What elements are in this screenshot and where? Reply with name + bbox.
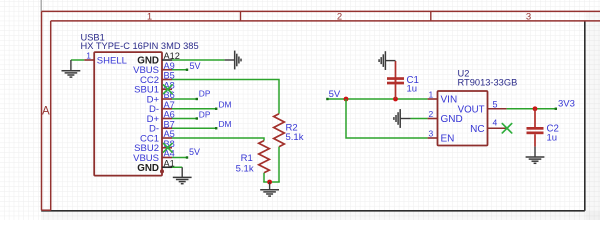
pin A6 (D+) of USB1	[162, 118, 172, 120]
svg-text:DP: DP	[199, 109, 211, 119]
pin A7 (D-) of USB1	[162, 108, 172, 110]
ground at A1	[181, 167, 183, 177]
svg-text:1: 1	[147, 11, 152, 22]
resistor R2	[274, 114, 285, 147]
ground at SHELL	[70, 60, 72, 70]
svg-text:5V: 5V	[190, 61, 201, 71]
svg-text:RT9013-33GB: RT9013-33GB	[458, 77, 518, 87]
svg-text:A: A	[42, 106, 50, 118]
svg-text:1: 1	[86, 50, 91, 60]
svg-text:1: 1	[428, 89, 433, 99]
wire R1 bottom	[263, 173, 265, 182]
svg-text:EN: EN	[441, 134, 455, 145]
svg-text:4: 4	[492, 117, 497, 127]
wire A7 D-	[172, 108, 216, 110]
ground at C1 (left)	[385, 60, 395, 62]
svg-text:5.1k: 5.1k	[286, 132, 304, 143]
no-ERC mark on pin A8	[164, 85, 173, 94]
pin A4 (VBUS) of USB1	[162, 157, 172, 159]
junction C1	[393, 97, 398, 102]
ground at R1/R2	[269, 182, 271, 189]
sheet edge right	[584, 21, 586, 211]
junction C2	[533, 106, 538, 111]
svg-text:1u: 1u	[547, 133, 558, 144]
svg-text:GND: GND	[137, 163, 159, 174]
svg-text:DP: DP	[199, 89, 211, 99]
wire VOUT to 3V3	[507, 108, 556, 110]
svg-text:SHELL: SHELL	[97, 55, 127, 66]
wire A4 VBUS stub	[172, 157, 187, 159]
svg-text:HX TYPE-C 16PIN 3MD 385: HX TYPE-C 16PIN 3MD 385	[81, 41, 199, 51]
capacitor C1	[395, 77, 397, 99]
svg-text:3V3: 3V3	[558, 99, 575, 110]
frame column tick 1|2	[240, 11, 242, 21]
ground at A12	[225, 59, 235, 61]
pin B5 (CC2) of USB1	[162, 79, 172, 81]
pin 1 VIN of U2	[428, 98, 438, 100]
resistor R1	[259, 141, 270, 173]
IC U2 body	[438, 91, 488, 146]
no-ERC mark on pin B8	[164, 143, 173, 152]
pin B6 (D+) of USB1	[162, 98, 172, 100]
pin B7 (D-) of USB1	[162, 127, 172, 129]
svg-text:3: 3	[428, 128, 433, 138]
svg-text:VOUT: VOUT	[458, 104, 485, 115]
frame column tick 2|3	[430, 11, 432, 21]
svg-text:GND: GND	[441, 114, 463, 125]
svg-text:VIN: VIN	[441, 95, 458, 106]
svg-text:5: 5	[492, 100, 497, 110]
ground at C2	[534, 147, 536, 157]
part origin dot USB1	[160, 169, 164, 173]
wire B7 D-	[172, 127, 216, 129]
sheet edge bottom	[41, 210, 585, 212]
pin A5 (CC1) of USB1	[162, 137, 172, 139]
wire R2 bottom	[278, 147, 280, 182]
pin A8 (SBU1) of USB1	[162, 88, 172, 90]
pin A1 (GND) of USB1	[162, 166, 172, 168]
svg-text:DM: DM	[219, 100, 232, 110]
pin 1 SHELL of USB1	[84, 59, 94, 61]
svg-text:3: 3	[526, 11, 531, 22]
wire U2 GND pin to ground	[411, 118, 428, 120]
svg-text:2: 2	[428, 109, 433, 119]
frame bottom-left segment	[42, 209, 51, 211]
wire EN branch	[346, 99, 428, 138]
junction EN branch	[344, 97, 349, 102]
pin 4 NC of U2	[488, 127, 508, 129]
ground at U2 GND (left)	[400, 118, 410, 120]
wire SHELL to ground	[71, 59, 84, 61]
junction R bottom	[267, 180, 272, 185]
svg-text:2: 2	[337, 11, 342, 22]
wire R1-R2 bottom join	[263, 181, 280, 183]
pin A12 (GND) of USB1	[162, 59, 172, 61]
svg-text:1u: 1u	[407, 84, 418, 95]
pin 5 VOUT of U2	[488, 108, 507, 110]
wire A5 CC1 to R1	[172, 138, 264, 141]
wire A1 GND	[172, 166, 182, 168]
wire A6 D+	[172, 118, 197, 120]
wire B5 CC2 to R2	[172, 80, 279, 114]
pin B8 (SBU2) of USB1	[162, 147, 172, 149]
wire A9 VBUS stub	[172, 69, 187, 71]
capacitor C2	[534, 109, 536, 127]
svg-text:R1: R1	[241, 153, 253, 164]
pin 3 EN of U2	[428, 137, 438, 139]
frame outer border	[42, 10, 600, 12]
frame inner border	[51, 20, 600, 22]
svg-text:5.1k: 5.1k	[236, 163, 254, 174]
svg-text:DM: DM	[219, 119, 232, 129]
svg-text:5V: 5V	[189, 147, 200, 157]
no-ERC mark on pin 4 NC	[502, 124, 511, 133]
sheet edge left	[40, 0, 42, 11]
wire B6 D+	[172, 98, 197, 100]
pin 2 GND of U2	[428, 118, 438, 120]
pin A9 (VBUS) of USB1	[162, 69, 172, 71]
wire 5V rail to U2 VIN	[327, 98, 427, 100]
connector USB1 body	[94, 52, 162, 176]
svg-text:NC: NC	[470, 124, 484, 135]
wire A12 GND	[172, 59, 225, 61]
